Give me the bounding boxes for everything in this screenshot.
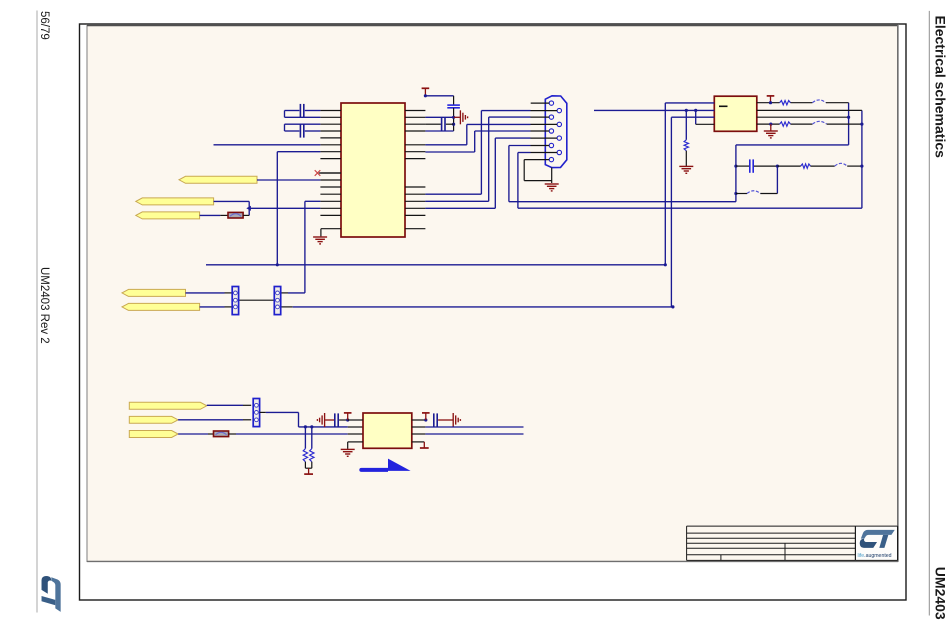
svg-text:UM2403 Rev 2: UM2403 Rev 2: [38, 267, 50, 344]
svg-text:life.augmented: life.augmented: [858, 553, 892, 559]
svg-text:56/79: 56/79: [38, 11, 50, 40]
svg-text:Electrical schematics: Electrical schematics: [933, 16, 949, 159]
svg-text:UM2403: UM2403: [933, 567, 949, 620]
